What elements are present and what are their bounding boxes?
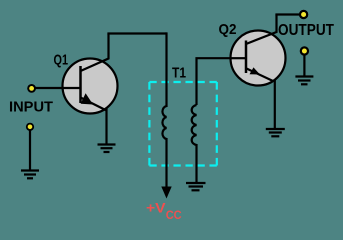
transistor Q1 body [63,59,118,114]
Q1 emitter arrowhead [81,93,93,104]
Q2 collector line [246,15,277,45]
wire T1 secondary to ground [195,144,197,183]
ground under Q2 emitter [266,129,285,136]
Q1 base bar [79,66,82,103]
ground under Q1 emitter [98,145,116,153]
T1 secondary winding [192,105,197,145]
ground lower-left [21,171,39,179]
ground under T1 secondary [186,183,206,190]
ground under output return [295,77,313,85]
input terminal dot [28,85,35,92]
Vcc arrowhead [161,187,171,199]
Q2 base bar [245,41,248,74]
wire input return to ground [29,130,31,170]
input return terminal dot [27,124,33,130]
transformer T1 dashed enclosure [149,82,216,166]
Q2 emitter line [246,68,273,81]
wire T1 primary to Vcc arrow [165,138,167,188]
wire Q1 emitter to ground [105,108,107,144]
svg-text:OUTPUT: OUTPUT [278,22,334,39]
Q2 emitter arrowhead [250,67,261,74]
svg-text:CC: CC [166,208,182,222]
T1 primary winding [162,106,166,139]
output return terminal dot [301,47,308,54]
wire input to Q1 base [35,87,80,89]
wire T1 secondary to Q2 base [197,58,232,105]
svg-text:Q1: Q1 [54,52,69,69]
transistor Q2 body [231,31,286,86]
Q1 collector line [81,34,109,72]
output terminal dot [300,11,307,18]
wire output return to ground [303,54,305,76]
Q1 emitter line [81,98,107,111]
svg-text:INPUT: INPUT [9,99,53,116]
svg-text:T1: T1 [172,65,186,82]
wire down to T1 primary [165,32,167,107]
wire Q2 collector to output [275,13,301,15]
svg-text:Q2: Q2 [219,21,237,38]
wire Q2 base inside [232,57,247,59]
wire Q1 collector to T1 primary (top) [107,32,166,34]
wire Q2 emitter to ground [274,80,276,129]
svg-text:+V: +V [146,201,166,216]
